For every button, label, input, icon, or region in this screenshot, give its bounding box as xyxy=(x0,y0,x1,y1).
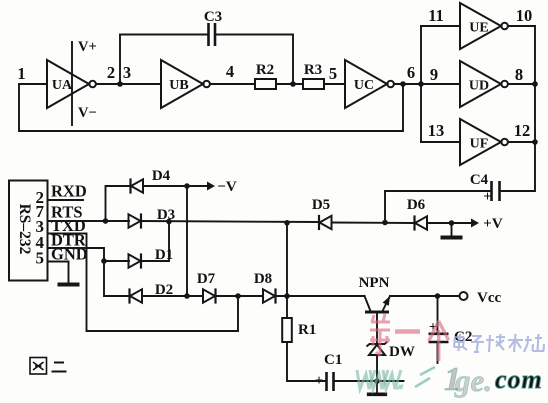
svg-text:D6: D6 xyxy=(407,197,426,213)
svg-text:13: 13 xyxy=(428,121,445,140)
svg-text:R3: R3 xyxy=(304,62,322,78)
svg-text:D3: D3 xyxy=(157,207,175,223)
svg-text:12: 12 xyxy=(514,121,531,140)
svg-text:UF: UF xyxy=(470,137,489,152)
svg-text:R2: R2 xyxy=(256,62,274,78)
svg-text:C1: C1 xyxy=(324,352,342,368)
svg-text:ge.: ge. xyxy=(454,363,492,398)
svg-text:11: 11 xyxy=(428,6,444,25)
svg-text:com: com xyxy=(495,365,543,394)
svg-text:+: + xyxy=(483,189,492,205)
svg-text:Vcc: Vcc xyxy=(477,290,501,306)
svg-text:UC: UC xyxy=(354,78,374,93)
svg-text:D4: D4 xyxy=(152,168,171,184)
svg-text:UD: UD xyxy=(469,79,489,94)
svg-text:RXD: RXD xyxy=(51,182,87,201)
svg-text:V−: V− xyxy=(78,105,97,121)
svg-text:+: + xyxy=(315,373,324,389)
svg-text:D8: D8 xyxy=(254,271,272,287)
svg-text:10: 10 xyxy=(516,6,533,25)
svg-text:UA: UA xyxy=(52,78,73,93)
svg-text:−V: −V xyxy=(217,179,237,195)
svg-text:RS–232: RS–232 xyxy=(16,204,33,255)
svg-text:+V: +V xyxy=(483,216,503,232)
svg-text:D2: D2 xyxy=(155,282,173,298)
svg-text:D7: D7 xyxy=(197,271,216,287)
svg-text:5: 5 xyxy=(329,64,337,83)
svg-text:D1: D1 xyxy=(155,247,173,263)
svg-text:C3: C3 xyxy=(204,9,222,25)
svg-text:D5: D5 xyxy=(312,197,330,213)
svg-text:NPN: NPN xyxy=(359,275,390,291)
svg-text:1: 1 xyxy=(17,64,25,83)
svg-text:V+: V+ xyxy=(78,39,97,55)
svg-text:DW: DW xyxy=(389,344,415,360)
svg-text:2: 2 xyxy=(107,63,115,82)
svg-text:8: 8 xyxy=(515,65,523,84)
svg-text:4: 4 xyxy=(226,62,234,81)
svg-text:C4: C4 xyxy=(470,172,489,188)
svg-text:R1: R1 xyxy=(298,322,316,338)
svg-text:5: 5 xyxy=(36,249,45,268)
svg-text:UE: UE xyxy=(469,21,488,36)
svg-text:6: 6 xyxy=(407,63,415,82)
svg-text:3: 3 xyxy=(123,63,131,82)
svg-text:9: 9 xyxy=(430,65,438,84)
svg-text:UB: UB xyxy=(169,78,188,93)
